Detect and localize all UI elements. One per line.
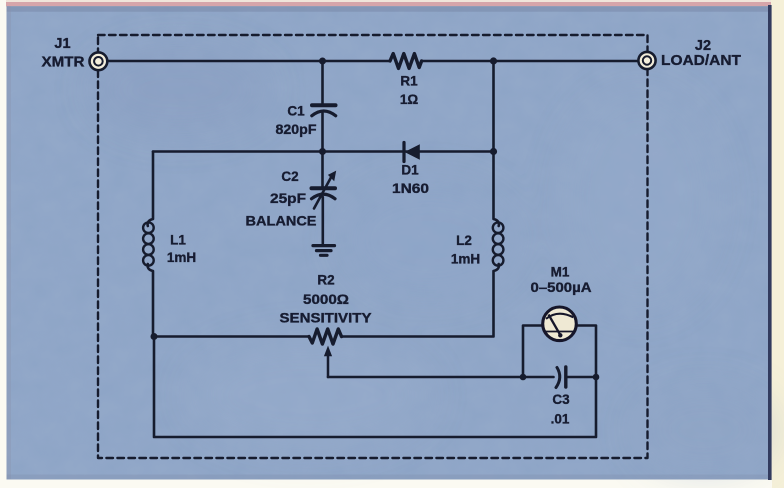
node: C3 right terminal junction [593, 374, 600, 381]
R2 wiper arrow head [324, 346, 332, 357]
ground [313, 244, 335, 247]
connector J2 [638, 52, 655, 69]
shield enclosure dashed box [98, 35, 648, 458]
inductor L1 [143, 222, 154, 265]
node: D1 cathode wire / L2 branch junction [490, 148, 497, 155]
C3 left wire [523, 376, 554, 379]
wire C1 branch down [321, 61, 324, 103]
svg-text:R1: R1 [400, 74, 418, 89]
wiper wire to C3 left node [328, 376, 523, 379]
svg-text:820pF: 820pF [276, 122, 317, 137]
svg-text:D1: D1 [401, 163, 419, 178]
C3 right wire [566, 376, 596, 379]
svg-text:1Ω: 1Ω [400, 92, 419, 107]
meter M1 [543, 307, 577, 341]
svg-text:C3: C3 [552, 392, 570, 407]
svg-text:J2: J2 [695, 38, 711, 54]
node: L1 bottom / R2 wire / bottom loop junction [151, 333, 158, 340]
svg-text:0–500µA: 0–500µA [531, 280, 592, 295]
svg-text:LOAD/ANT: LOAD/ANT [661, 53, 741, 69]
wire R2 left to node [154, 335, 309, 338]
diode D1 cathode bar [402, 143, 405, 162]
bottom wire loop [154, 326, 596, 438]
node: top wire / C1 branch junction [319, 58, 326, 65]
wire C1 to node row2 [321, 113, 324, 152]
svg-text:1mH: 1mH [167, 250, 196, 265]
C2 arrow head [328, 171, 336, 182]
diode D1 triangle [405, 144, 420, 160]
svg-text:C1: C1 [287, 104, 305, 119]
svg-text:M1: M1 [551, 265, 570, 280]
wire top: J1 to R1 left [98, 60, 390, 63]
wire L1 vertical branch with hooks [148, 152, 153, 337]
svg-text:L1: L1 [170, 233, 186, 248]
svg-text:1N60: 1N60 [392, 181, 429, 196]
meter left arm [523, 326, 542, 378]
right navy separator [768, 5, 772, 480]
node: C3 left terminal junction [520, 374, 527, 381]
svg-text:C2: C2 [281, 169, 298, 184]
inductor L2 [493, 222, 504, 265]
svg-text:25pF: 25pF [270, 191, 306, 206]
resistor R1 [390, 54, 422, 69]
capacitor C3 plates [556, 368, 560, 388]
wiper of R2 [327, 352, 330, 377]
svg-text:1mH: 1mH [451, 252, 480, 267]
capacitor C1 [312, 103, 336, 107]
resistor R2 [309, 329, 342, 344]
wire R1 right to J2 [422, 60, 647, 63]
wire row2 horizontal [153, 150, 494, 153]
svg-text:BALANCE: BALANCE [246, 214, 317, 229]
top pale line [6, 0, 771, 2]
top pink strip [6, 2, 771, 6]
wire right branch vertical [494, 61, 499, 226]
edge vignette [7, 6, 769, 12]
node: top wire / right branch junction [490, 57, 497, 64]
svg-text:.01: .01 [551, 412, 570, 427]
bottom white margin strip [0, 480, 772, 488]
svg-text:XMTR: XMTR [42, 55, 86, 71]
node: row-2 wire / C1-C2 column junction [319, 148, 326, 155]
svg-text:R2: R2 [317, 273, 334, 288]
wire L2 bottom to R2 row [342, 264, 499, 337]
svg-text:SENSITIVITY: SENSITIVITY [280, 311, 372, 326]
svg-text:J1: J1 [54, 36, 70, 52]
svg-text:L2: L2 [456, 233, 472, 248]
soft tonal blotches of the scan [90, 45, 775, 475]
svg-text:5000Ω: 5000Ω [303, 292, 349, 307]
capacitor C2 (variable) [321, 152, 324, 189]
connector J1 [90, 52, 108, 70]
left white margin strip [0, 0, 7, 488]
